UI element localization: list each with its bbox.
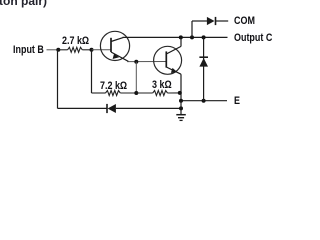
diode D2 (to COM, cathode right): [207, 17, 215, 25]
resistor R2 7.2 kOhm zigzag: [106, 91, 121, 96]
node: input junction dot: [56, 48, 60, 52]
wire: to resistor R2: [92, 92, 106, 94]
transistor Q1 collector diagonal: [111, 37, 124, 41]
wire: COM line right of diode: [216, 20, 229, 22]
transistor Q2 circle: [154, 46, 182, 74]
node: bottom wire junction dot: [179, 106, 183, 110]
wire: Q2 emitter vertical down to resistor row and E rail: [180, 74, 182, 101]
wire: Q1 emitter to Q2 base: [127, 61, 166, 63]
wire: input lead from label to node: [47, 49, 59, 51]
transistor Q2 emitter diagonal with arrow: [166, 67, 181, 74]
resistor R3 3 kOhm zigzag: [153, 91, 168, 96]
wire: vertical from input node down to bottom wire: [57, 50, 59, 109]
wire: base node to Q1 base: [92, 49, 112, 51]
wire: row node to resistor R3: [136, 92, 152, 94]
wire: input node to resistor R1: [58, 49, 67, 51]
node: clamp diode top junction on rail: [202, 35, 206, 39]
wire: resistor R1 to base node: [82, 49, 91, 51]
wire: bottom wire right segment to ground node: [116, 107, 181, 109]
wire: vertical from emitter node down to resistor row: [135, 62, 137, 93]
transistor Q1 circle: [100, 31, 129, 60]
node: Q2 collector junction on rail: [179, 35, 183, 39]
label 3 kOhm: [152, 79, 172, 91]
wire: clamp diode vertical (output to E): [203, 37, 205, 100]
resistor R1 2.7 kOhm zigzag: [68, 47, 83, 52]
label Input B: [13, 44, 44, 56]
diode D1 (input clamp, cathode left): [106, 104, 108, 113]
wire: Q2 collector vertical to rail: [180, 37, 182, 46]
node: resistor row junction dot: [134, 91, 138, 95]
wire: COM line left of diode: [192, 20, 207, 22]
wire: R2 to row node: [120, 92, 136, 94]
label 2.7 kOhm: [62, 35, 89, 47]
node: E rail junction dot: [179, 99, 183, 103]
node: R3 right junction dot: [178, 91, 182, 95]
transistor Q2 base bar: [165, 51, 167, 67]
transistor Q1 base bar: [110, 38, 112, 52]
wire: COM riser: [191, 21, 193, 37]
wire: R3 to Q2 emitter node: [168, 92, 180, 94]
label COM: [234, 15, 255, 27]
wire: bottom wire left segment to diode D1: [58, 107, 108, 109]
label Output C: [234, 32, 272, 44]
wire: E rail: [181, 100, 227, 102]
node: clamp diode bottom junction dot: [202, 99, 206, 103]
diode D3 (E to output, cathode up): [199, 56, 208, 58]
node: COM riser junction on rail: [190, 35, 194, 39]
label 7.2 kOhm: [100, 80, 127, 92]
ground: [180, 108, 182, 114]
wire: vertical from Q1 base node down: [91, 50, 93, 93]
transistor Q1 emitter diagonal with arrow: [111, 52, 129, 62]
transistor Q2 collector diagonal: [166, 46, 181, 54]
wire: vertical E rail to bottom wire: [180, 101, 182, 109]
label E: [234, 95, 240, 107]
wire: output rail (Output C net): [123, 36, 228, 38]
node: Q1 emitter junction dot: [134, 60, 138, 64]
node: Q1 base junction dot: [90, 48, 94, 52]
title fragment (cropped caption): [0, 0, 47, 8]
